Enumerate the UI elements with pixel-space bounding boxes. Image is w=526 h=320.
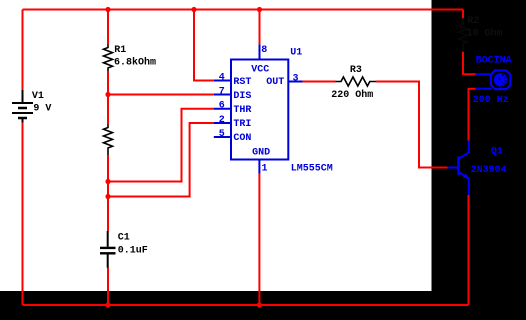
svg-text:R1: R1: [114, 45, 126, 56]
svg-text:V1: V1: [32, 91, 44, 102]
svg-text:10 Ohm: 10 Ohm: [467, 28, 503, 40]
svg-text:TRI: TRI: [233, 119, 251, 130]
svg-text:LM555CM: LM555CM: [291, 163, 333, 174]
svg-text:2N3904: 2N3904: [471, 165, 507, 176]
svg-text:THR: THR: [233, 105, 251, 116]
svg-text:R3: R3: [350, 65, 362, 76]
svg-text:1: 1: [262, 163, 268, 174]
svg-text:DIS: DIS: [233, 91, 251, 102]
svg-text:GND: GND: [252, 148, 270, 159]
svg-text:6.8kOhm: 6.8kOhm: [114, 57, 156, 69]
svg-text:2: 2: [219, 115, 225, 126]
svg-text:OUT: OUT: [266, 77, 284, 88]
svg-text:C1: C1: [118, 233, 130, 244]
svg-text:0.1uF: 0.1uF: [118, 246, 148, 257]
svg-text:7: 7: [219, 86, 225, 97]
svg-text:4: 4: [219, 72, 225, 83]
svg-text:R2: R2: [467, 16, 479, 27]
svg-text:6: 6: [219, 101, 225, 112]
svg-text:Q1: Q1: [491, 147, 503, 158]
svg-text:9 V: 9 V: [33, 103, 51, 114]
svg-text:220 Ohm: 220 Ohm: [331, 89, 373, 101]
svg-text:RST: RST: [233, 77, 251, 88]
svg-text:5: 5: [219, 129, 225, 140]
svg-text:3: 3: [293, 73, 299, 84]
svg-text:VCC: VCC: [251, 65, 269, 76]
svg-text:8: 8: [261, 45, 267, 56]
svg-text:200 Hz: 200 Hz: [473, 95, 509, 106]
svg-text:CON: CON: [233, 133, 251, 144]
svg-text:U1: U1: [290, 48, 302, 59]
svg-text:BOCINA: BOCINA: [476, 56, 512, 67]
